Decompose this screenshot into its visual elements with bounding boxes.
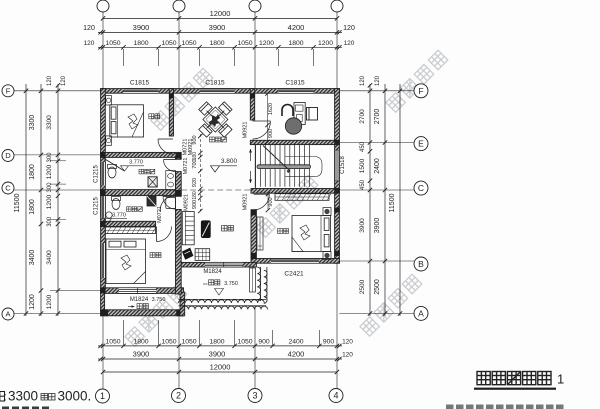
dimension 11500 right	[399, 84, 401, 316]
wardrobe bedroom4	[275, 194, 331, 201]
wardrobe bedroom3	[105, 227, 156, 234]
svg-text:F: F	[418, 86, 423, 96]
watermark	[125, 284, 187, 346]
svg-text:1620: 1620	[268, 103, 274, 115]
shower bath1	[104, 159, 125, 172]
svg-text:1200: 1200	[259, 40, 274, 47]
watermark	[256, 175, 318, 237]
wall row-6900 (bath2 / bedroom3 partition)	[101, 221, 156, 226]
svg-text:1500: 1500	[359, 158, 366, 173]
svg-text:3300: 3300	[46, 115, 53, 130]
svg-text:300: 300	[47, 182, 53, 193]
door M0921 bedroom4	[254, 194, 270, 210]
svg-text:3: 3	[252, 391, 257, 401]
svg-text:3900: 3900	[359, 218, 366, 233]
washer bath2	[166, 198, 176, 209]
wall C-row (bath1 / bath2 partition)	[101, 190, 182, 196]
svg-text:1: 1	[557, 372, 564, 387]
sofa living room	[182, 212, 194, 245]
svg-text:900: 900	[192, 200, 198, 209]
wall balcony-left bottom (A-row)	[101, 310, 184, 316]
grid bubble top 3	[249, 0, 261, 12]
door M0721 bedroom3	[157, 227, 172, 242]
window C1815 right (in top wall)	[278, 89, 313, 94]
grid bubble bottom 4	[329, 389, 343, 403]
svg-text:3900: 3900	[209, 23, 226, 32]
room label bedroom3	[150, 253, 155, 258]
watermark	[386, 50, 448, 112]
stairs direction break line	[263, 146, 290, 172]
svg-text:3300: 3300	[8, 389, 38, 404]
svg-text:1200: 1200	[46, 194, 53, 209]
dimension 3900/3900/4200 top	[98, 31, 342, 33]
svg-text:1800: 1800	[209, 40, 224, 47]
svg-text:120: 120	[344, 40, 355, 47]
sink bath2	[106, 212, 112, 218]
wall balcony-left left side	[101, 292, 105, 310]
svg-text:1200: 1200	[46, 294, 53, 309]
svg-text:3300: 3300	[29, 115, 36, 131]
svg-text::: :	[3, 390, 6, 404]
room label bedroom4	[278, 229, 283, 234]
wall living-room bottom	[176, 262, 257, 267]
balcony post right	[176, 309, 184, 316]
svg-text:1050: 1050	[181, 40, 196, 47]
interior dim study	[267, 94, 269, 143]
window C1815 middle (in top wall)	[200, 89, 235, 94]
bed bedroom4 (bottom-right)	[292, 216, 331, 252]
svg-text:C1518: C1518	[340, 156, 346, 174]
exterior wall right	[335, 89, 340, 264]
svg-text:900: 900	[323, 339, 335, 346]
wall bedroom4 left	[251, 210, 256, 259]
wall balcony-left right side	[180, 292, 185, 316]
svg-text:120: 120	[343, 25, 355, 32]
svg-text:1200: 1200	[29, 294, 36, 310]
note partial second line bottom-left	[2, 407, 49, 409]
door M0921 bedroom1	[158, 139, 173, 154]
svg-text:180: 180	[192, 191, 198, 200]
chair study (round)	[285, 118, 301, 134]
armchair living room	[195, 249, 210, 261]
stairs treads	[256, 145, 310, 187]
svg-text:C1815: C1815	[205, 80, 225, 87]
window C1815 left (in top wall)	[124, 89, 159, 94]
svg-text:300: 300	[47, 216, 53, 227]
room label bath2	[127, 207, 132, 212]
svg-text:120: 120	[360, 75, 366, 86]
watermark	[151, 68, 213, 130]
svg-text:1800: 1800	[133, 40, 148, 47]
bed bedroom1 (top-left)	[110, 105, 144, 137]
svg-text:1050: 1050	[161, 40, 176, 47]
column block left wall at D	[100, 152, 105, 157]
svg-text:3400: 3400	[29, 250, 36, 266]
grid dash line C across hallway	[181, 189, 251, 191]
svg-text:M0921: M0921	[243, 194, 249, 211]
bedside table bedroom4 lower	[323, 252, 331, 260]
svg-text:M1824: M1824	[130, 297, 149, 303]
svg-text:12000: 12000	[210, 363, 231, 372]
svg-text:3.750: 3.750	[224, 281, 238, 287]
svg-text:450: 450	[360, 141, 366, 152]
witness lines bottom sub	[123, 320, 125, 346]
shower bath2 (dark)	[147, 196, 156, 206]
wall E-row (study and stair, south side)	[250, 140, 339, 144]
svg-text:700: 700	[192, 159, 198, 168]
column block bedroom4 left-wall bottom	[251, 253, 256, 259]
svg-text:M0721: M0721	[183, 158, 189, 175]
svg-text:2: 2	[176, 391, 181, 401]
window C1215 upper (left wall)	[101, 162, 106, 185]
witness lines top grid	[102, 12, 104, 89]
chairs leisure area	[199, 102, 212, 115]
svg-text:1050: 1050	[161, 339, 176, 346]
svg-text:900: 900	[268, 129, 274, 138]
stairs landing boundary	[285, 157, 322, 177]
svg-text:2400: 2400	[288, 339, 303, 346]
window C2421 (in B wall)	[271, 259, 319, 264]
grid bubble bottom 1	[96, 389, 110, 403]
svg-text:1800: 1800	[133, 339, 148, 346]
svg-text:M0921: M0921	[184, 194, 190, 211]
stairs down arrow	[250, 171, 252, 183]
svg-text:120: 120	[342, 352, 353, 359]
svg-text:1: 1	[100, 391, 105, 401]
svg-text:A: A	[5, 310, 10, 319]
column block mid-column at D	[176, 153, 182, 159]
grid bubble left C	[2, 182, 14, 194]
bedside table bedroom1 upper	[106, 96, 112, 105]
svg-text:B: B	[418, 259, 424, 269]
room label bath1	[139, 169, 144, 174]
window C1518 (right wall, gray)	[335, 150, 340, 181]
interior dim bedroom4 door	[267, 194, 269, 210]
grid bubble right A	[414, 306, 428, 320]
svg-text:C1815: C1815	[130, 80, 150, 87]
svg-text:120: 120	[61, 75, 67, 86]
grid bubble bottom 3	[248, 389, 262, 403]
grid bubble left D	[2, 150, 14, 162]
svg-text:900: 900	[258, 339, 270, 346]
door M0721 bath1	[164, 160, 176, 172]
svg-text:920: 920	[192, 178, 198, 187]
chair study left (rounded)	[282, 105, 293, 117]
svg-text:1050: 1050	[237, 40, 252, 47]
dimension chain left inner	[57, 84, 59, 316]
chair study right (armchair)	[307, 108, 318, 121]
svg-text:3900: 3900	[209, 350, 226, 359]
stereo living room	[182, 248, 193, 260]
exterior wall left	[101, 89, 106, 293]
svg-text:120: 120	[342, 339, 353, 346]
svg-text:E: E	[418, 139, 424, 149]
svg-text:1200: 1200	[318, 40, 333, 47]
svg-text:2400: 2400	[374, 158, 381, 174]
svg-text:11500: 11500	[14, 193, 21, 212]
svg-text:3.770: 3.770	[129, 160, 143, 166]
svg-text:3.800: 3.800	[221, 158, 238, 165]
svg-text:11500: 11500	[389, 193, 396, 212]
dimension chain right inner	[369, 84, 371, 316]
svg-text:3000.: 3000.	[58, 389, 92, 404]
column block study-wall top	[250, 93, 254, 98]
window C1215 lower (left wall)	[101, 194, 106, 217]
svg-text:C1815: C1815	[285, 80, 305, 87]
svg-text:4: 4	[333, 391, 338, 401]
stairs handrail	[257, 165, 311, 169]
wall D-row (bedroom1 / bath1 partition)	[101, 152, 182, 157]
grid bubble right F	[414, 84, 428, 98]
dimension 12000 top	[103, 17, 337, 19]
witness lines left	[14, 90, 101, 92]
svg-text:C2421: C2421	[284, 271, 304, 278]
bed bedroom3 (bottom-left)	[106, 239, 146, 284]
svg-text:120: 120	[47, 75, 53, 86]
column block right-wall at stair bottom	[334, 188, 340, 194]
svg-text:450: 450	[360, 179, 366, 190]
svg-text:1800: 1800	[29, 164, 36, 180]
svg-text:4200: 4200	[288, 350, 305, 359]
svg-text:12000: 12000	[210, 9, 231, 18]
grid bubble top 4	[331, 0, 343, 12]
wall row-10300 (bedroom3 bottom)	[101, 288, 184, 294]
label balcony left	[137, 304, 142, 309]
svg-text:2500: 2500	[374, 279, 381, 295]
note partial watermark-credit bottom-right	[446, 405, 564, 409]
svg-text:1800: 1800	[29, 199, 36, 215]
svg-text:120: 120	[375, 75, 381, 86]
label balcony middle	[209, 280, 214, 285]
room label leisure area	[210, 137, 215, 142]
dimension 12000 bottom	[103, 371, 337, 373]
floor drain bath1	[148, 177, 157, 187]
grid bubble right E	[414, 137, 428, 151]
grid bubble top 1	[97, 0, 109, 12]
grid bubble bottom 2	[172, 389, 186, 403]
svg-text:3900: 3900	[133, 23, 150, 32]
note floor heights bottom-left	[0, 389, 91, 404]
svg-text:3400: 3400	[46, 250, 53, 265]
wall study left	[250, 89, 254, 120]
svg-text:2700: 2700	[359, 109, 366, 124]
grid bubble right B	[414, 257, 428, 271]
svg-text:C1215: C1215	[94, 165, 100, 183]
tv living room	[201, 220, 211, 238]
svg-text:C: C	[5, 184, 11, 193]
column block right-wall at E	[334, 140, 340, 145]
table leisure area	[203, 107, 228, 132]
interior dim chain hallway	[199, 134, 201, 211]
svg-text:F: F	[6, 87, 11, 96]
watermark	[360, 274, 422, 336]
svg-text:2500: 2500	[359, 279, 366, 294]
bedside table bedroom1 lower	[106, 136, 112, 145]
dimension chain left outer	[40, 84, 42, 316]
wall bedroom1 / leisure partition	[169, 89, 173, 136]
title second floor plan	[474, 372, 564, 390]
wall stairwell bottom	[251, 189, 339, 194]
column block bedroom4 left-wall top	[251, 210, 256, 216]
svg-text:C: C	[418, 183, 424, 193]
wall mid-column (bath right / living left)	[176, 157, 182, 159]
stairs up arrow	[250, 149, 252, 161]
door-window M1824 (bedroom3 to balcony)	[119, 288, 156, 294]
window left-bedroom (left wall)	[101, 243, 106, 278]
svg-text:3.770: 3.770	[112, 213, 126, 219]
svg-text:1050: 1050	[105, 40, 120, 47]
svg-text:1050: 1050	[105, 339, 120, 346]
svg-text:C1215: C1215	[94, 197, 100, 215]
dimension sub-chain top	[98, 46, 342, 48]
column block partition top	[169, 93, 173, 98]
toilet bath1	[108, 167, 116, 178]
svg-text:1800: 1800	[209, 339, 224, 346]
column block left wall at 10300	[100, 288, 105, 294]
svg-text::: :	[54, 392, 57, 402]
balcony planter box	[250, 268, 256, 292]
column block mid-column at C	[176, 190, 182, 196]
svg-text:3900: 3900	[374, 218, 381, 234]
balcony middle railing bottom	[179, 299, 268, 309]
door M0721 bath2	[163, 197, 176, 210]
svg-text:M0721: M0721	[157, 206, 163, 223]
dimension 3900/3900/4200 bottom	[98, 358, 342, 360]
vanity bath1	[166, 171, 176, 191]
stairs left boundary	[254, 145, 256, 189]
dimension sub-chain bottom	[98, 345, 342, 347]
svg-text:3.750: 3.750	[152, 297, 166, 303]
grid bubble right C	[414, 181, 428, 195]
door M0921 living room	[160, 196, 176, 212]
svg-text:M0921: M0921	[188, 139, 194, 156]
toilet bath2	[112, 199, 120, 210]
exterior wall top	[101, 89, 340, 94]
balcony middle railing right	[257, 267, 267, 303]
svg-text:D: D	[5, 151, 11, 160]
column block right-wall lower bedroom4	[334, 251, 340, 256]
svg-text:120: 120	[84, 40, 95, 47]
svg-text:M0921: M0921	[243, 122, 249, 139]
svg-text:900: 900	[268, 197, 274, 206]
dimension chain right outer	[384, 84, 386, 316]
grid bubble left A	[2, 308, 14, 320]
column block left wall at C	[100, 190, 105, 196]
door M0921 study	[253, 121, 271, 139]
grid bubble left F	[2, 85, 14, 97]
balcony post left	[100, 309, 108, 316]
column block right-wall mid bedroom4	[334, 208, 340, 213]
svg-text:3900: 3900	[133, 350, 150, 359]
witness lines top sub	[123, 49, 125, 66]
svg-text:2700: 2700	[374, 109, 381, 125]
svg-text:1050: 1050	[237, 339, 252, 346]
dimension 11500 left	[25, 84, 27, 316]
witness lines bottom grid	[102, 316, 104, 389]
svg-text:1800: 1800	[288, 40, 303, 47]
desk study	[294, 103, 305, 125]
room label living room	[222, 226, 228, 232]
room label bedroom1	[149, 114, 154, 119]
column block left wall at 6900	[100, 221, 105, 226]
svg-text:120: 120	[83, 25, 95, 32]
bedside table bedroom4 upper	[323, 208, 331, 216]
door-window M1824 (living to balcony)	[205, 262, 243, 267]
wall B-row (bedroom4 bottom)	[251, 259, 339, 264]
cabinet bedroom4 tall	[257, 217, 263, 250]
grid bubble top 2	[173, 0, 185, 12]
svg-text:4200: 4200	[288, 23, 305, 32]
svg-text:M1824: M1824	[203, 269, 222, 275]
witness lines right	[339, 90, 414, 92]
svg-text:A: A	[418, 309, 424, 319]
svg-text:1050: 1050	[181, 339, 196, 346]
svg-text:1200: 1200	[46, 164, 53, 179]
